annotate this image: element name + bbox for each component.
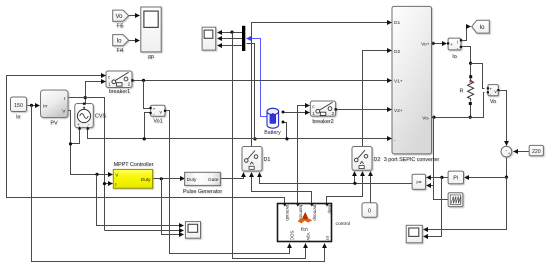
wire demux tap 3 down to negative bus bbox=[247, 44, 255, 139]
wire demux output 2 to op scope bbox=[218, 38, 243, 40]
MATLAB function block control bbox=[278, 204, 351, 242]
svg-text:breaker1: breaker1 bbox=[109, 89, 130, 95]
svg-text:breaker2: breaker2 bbox=[312, 119, 333, 125]
constant 0 bbox=[362, 203, 377, 217]
wire PI tap down to scope input 2 bbox=[424, 178, 442, 237]
wire relational output to D1 right and D2 left gates bbox=[260, 173, 413, 184]
wire tap down to Vo1 plus input bbox=[144, 81, 150, 109]
wire Vo- branch down bbox=[433, 118, 435, 186]
svg-text:Vo+: Vo+ bbox=[421, 42, 430, 48]
PI controller bbox=[448, 171, 463, 184]
wire sawtooth output to relational input 2 bbox=[427, 186, 449, 200]
svg-text:>=: >= bbox=[416, 180, 422, 186]
wire Vo1 minus down to negative bus bbox=[145, 113, 151, 139]
wire SEPIC Vo- to Vo measurement minus input bbox=[432, 93, 485, 118]
svg-text:Vo1: Vo1 bbox=[153, 119, 162, 125]
wire demux output 1 to op scope bbox=[218, 32, 243, 34]
node junction sum output / PI tap bbox=[505, 176, 508, 179]
svg-text:R: R bbox=[459, 88, 463, 94]
svg-text:Duty: Duty bbox=[187, 177, 197, 183]
wire demux output 3 to op scope bbox=[218, 45, 243, 47]
svg-text:Io: Io bbox=[452, 54, 457, 60]
svg-text:pvmosb: pvmosb bbox=[285, 205, 290, 222]
constant 220 bbox=[529, 145, 543, 155]
switch D2 bbox=[352, 147, 380, 171]
svg-text:Vo: Vo bbox=[115, 14, 123, 20]
wire Pulse Generator Gate to D1 left gate bbox=[221, 173, 244, 179]
scope (bottom right) bbox=[406, 225, 422, 243]
3 port SEPIC converter bbox=[384, 6, 440, 162]
wire Vo v output to sum block top bbox=[499, 91, 507, 146]
From tag Io bbox=[113, 35, 129, 54]
wire D1 top up and right to SEPIC D1 input bbox=[252, 23, 392, 147]
breaker1 bbox=[106, 71, 134, 95]
svg-text:220: 220 bbox=[532, 149, 541, 155]
scope (middle bottom) bbox=[185, 222, 200, 239]
wire From Io to op scope bbox=[129, 40, 140, 42]
wire D2 top up and right to SEPIC D2 input bbox=[363, 51, 392, 147]
node junction on Vo+ wire bbox=[432, 42, 435, 45]
sum block bbox=[501, 146, 512, 157]
svg-text:Fi4: Fi4 bbox=[117, 48, 124, 54]
node junction D2 left gate on relational line bbox=[353, 182, 356, 185]
svg-text:Io: Io bbox=[479, 25, 485, 31]
svg-text:CVS: CVS bbox=[95, 113, 106, 119]
node junction Duty tap bbox=[160, 177, 163, 180]
wire R bottom to SEPIC Vo- line bbox=[470, 103, 472, 118]
svg-text:D2: D2 bbox=[394, 49, 400, 55]
CVS bottom port arrows bbox=[78, 126, 82, 129]
demux bbox=[242, 26, 245, 51]
current measurement Io bbox=[447, 38, 462, 60]
wire breaker2 output to SEPIC V2+ bbox=[336, 109, 392, 111]
svg-text:Fi5: Fi5 bbox=[117, 24, 124, 30]
annotation asterisk bbox=[148, 56, 152, 59]
constant 150 (Irr) bbox=[11, 97, 27, 121]
wire Io output down to resistor R top bbox=[461, 47, 471, 77]
wire PV I output to MPPT I input and scope bbox=[69, 98, 105, 231]
svg-text:D1: D1 bbox=[264, 157, 271, 163]
svg-text:control: control bbox=[336, 221, 351, 227]
wire fcn output 1 to breaker1 c input bbox=[7, 76, 285, 204]
svg-text:Pulse Generator: Pulse Generator bbox=[183, 189, 222, 195]
svg-text:i: i bbox=[457, 40, 458, 46]
svg-text:Vo-: Vo- bbox=[422, 115, 430, 121]
sawtooth source bbox=[448, 193, 463, 207]
svg-text:I: I bbox=[115, 182, 116, 187]
svg-text:Duty: Duty bbox=[141, 177, 151, 183]
svg-text:Battery: Battery bbox=[264, 130, 281, 136]
node junction R top tap bbox=[469, 62, 472, 65]
wire 150 tap down and right to fcn bottom input 3 bbox=[32, 106, 325, 262]
node junction Vo- branch bbox=[432, 116, 435, 119]
svg-text:SOC: SOC bbox=[290, 230, 295, 241]
svg-text:0: 0 bbox=[368, 209, 371, 215]
node junction CVS/PV I crossing bbox=[84, 96, 87, 99]
svg-text:Gate: Gate bbox=[208, 177, 219, 183]
wire MPPT Duty to Pulse Generator bbox=[153, 178, 185, 180]
svg-text:+: + bbox=[77, 122, 80, 127]
PV array block bbox=[41, 90, 69, 127]
svg-text:150: 150 bbox=[14, 103, 23, 109]
svg-text:Irr: Irr bbox=[16, 115, 21, 121]
svg-text:V2+: V2+ bbox=[394, 108, 403, 114]
wire sum output down to scope input 1 bbox=[424, 157, 507, 230]
svg-text:MPPT Controller: MPPT Controller bbox=[114, 162, 154, 168]
wire CVS plus up to breaker1 input 1 bbox=[86, 82, 106, 104]
svg-text:Vpv: Vpv bbox=[306, 232, 311, 241]
node junction battery minus on bus bbox=[285, 137, 288, 140]
wire SOC tap from demux down to fcn input bbox=[233, 33, 306, 259]
voltage measurement Vo bbox=[487, 85, 500, 106]
wire PI output to relational input 1 bbox=[427, 177, 449, 179]
svg-text:Irr: Irr bbox=[43, 103, 48, 109]
svg-text:fcn: fcn bbox=[301, 227, 308, 233]
wire fcn output 4 to D2 middle port bbox=[327, 172, 363, 204]
node junction on 150 wire bbox=[30, 104, 33, 107]
battery bbox=[264, 108, 284, 136]
svg-text:I: I bbox=[64, 96, 65, 102]
svg-text:Irr: Irr bbox=[325, 236, 330, 241]
wire From Vo to op scope bbox=[129, 15, 140, 17]
wire V tap down to scope input 1 bbox=[97, 175, 184, 226]
svg-text:3 port SEPIC converter: 3 port SEPIC converter bbox=[384, 157, 440, 163]
node junction on demux output 1 bbox=[230, 30, 233, 33]
scope battery signals bbox=[202, 27, 216, 50]
wire battery plus to breaker2 input 1 bbox=[284, 112, 310, 114]
breaker2 bbox=[310, 101, 337, 125]
node junction CVS minus on V wire bbox=[69, 142, 72, 145]
svg-text:D1: D1 bbox=[394, 20, 400, 26]
wire battery m signal (blue) to demux bbox=[247, 39, 267, 117]
From tag Vo bbox=[113, 10, 129, 29]
wire fcn output 3 to D1 middle port bbox=[252, 173, 312, 204]
wire tap to Vo measurement plus input bbox=[471, 64, 485, 89]
node junction V wire / scope tap bbox=[95, 173, 98, 176]
Goto tag Io bbox=[472, 20, 490, 33]
svg-text:PV: PV bbox=[50, 121, 58, 127]
wire constant 0 to D2 right port bbox=[370, 172, 372, 203]
MPPT Controller bbox=[113, 162, 153, 188]
svg-text:Io: Io bbox=[116, 39, 122, 45]
node junction R bottom on Vo- line bbox=[469, 116, 472, 119]
voltage measurement Vo1 bbox=[150, 105, 167, 124]
node junction Vo1 minus on bus bbox=[143, 137, 146, 140]
scope op bbox=[141, 7, 161, 60]
wire tap left into PI input bbox=[465, 177, 507, 179]
wire CVS minus to V wire bbox=[71, 129, 80, 144]
wire PV V output to MPPT V input bbox=[69, 111, 113, 175]
wire Duty tap down to scope input 3 bbox=[162, 179, 184, 235]
switch D1 bbox=[242, 147, 270, 172]
wire battery minus down to negative bus bbox=[284, 123, 287, 139]
wire fcn output 2 to breaker2 c input bbox=[298, 106, 310, 204]
wire Vo1 v output down to fcn bottom input 1 bbox=[165, 111, 290, 254]
svg-text:+: + bbox=[508, 151, 511, 156]
wire breaker1 output to SEPIC V1+ bbox=[133, 80, 392, 82]
wire Io i output up to Goto Io tag bbox=[461, 27, 471, 41]
node junction PV I / MPPT I bbox=[103, 182, 106, 185]
wire constant 220 to sum block right bbox=[514, 151, 530, 153]
node junction PI output tap bbox=[440, 176, 443, 179]
svg-text:batp: batp bbox=[328, 205, 333, 214]
relational operator >= bbox=[412, 174, 425, 189]
resistor R bbox=[459, 75, 473, 105]
node junction bus / tap bbox=[253, 137, 256, 140]
svg-text:V1+: V1+ bbox=[394, 79, 403, 85]
wire negative bus from CVS s to SEPIC port5 bbox=[88, 129, 392, 139]
svg-text:+: + bbox=[450, 43, 453, 48]
svg-text:D2: D2 bbox=[374, 157, 381, 163]
controlled voltage source CVS bbox=[75, 103, 107, 128]
svg-text:PI: PI bbox=[453, 176, 458, 182]
Pulse Generator bbox=[183, 172, 222, 195]
node junction breaker1 output / Vo1 bbox=[142, 79, 145, 82]
svg-text:pvmosp: pvmosp bbox=[312, 205, 317, 222]
wire SEPIC Vo+ to Io measurement bbox=[432, 43, 447, 45]
wire constant 150 to PV Irr input bbox=[27, 105, 40, 107]
svg-text:Vo: Vo bbox=[490, 99, 496, 105]
